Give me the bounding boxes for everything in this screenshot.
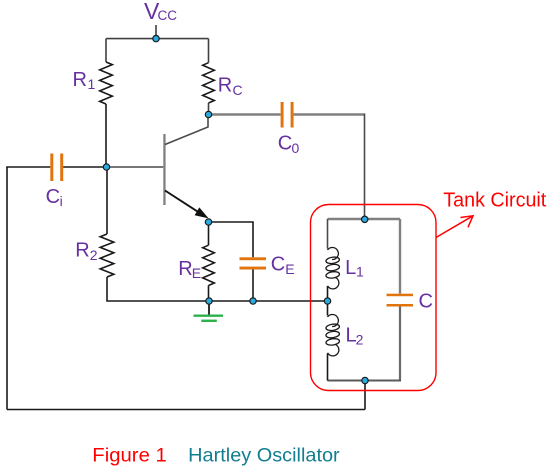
wire RC branch upper — [208, 39, 210, 63]
label L2 — [346, 325, 364, 348]
tank pointer arrow — [436, 216, 473, 238]
svg-text:C: C — [46, 186, 60, 208]
svg-text:E: E — [285, 261, 294, 277]
label L1 — [345, 257, 364, 280]
label R1 — [73, 69, 96, 92]
node tank bottom — [362, 377, 368, 383]
svg-text:R: R — [75, 240, 89, 262]
svg-text:2: 2 — [356, 332, 364, 348]
wire RE bottom — [208, 286, 210, 302]
wire CE bottom — [252, 270, 254, 302]
svg-text:E: E — [192, 265, 201, 281]
svg-text:R: R — [178, 258, 192, 280]
tank rectangle right wire upper — [399, 219, 401, 294]
wire base to transistor — [107, 166, 164, 168]
wire feedback left vertical — [6, 167, 8, 410]
wire emitter node to CE — [209, 222, 254, 257]
resistor RC — [203, 63, 215, 103]
capacitor C0 — [281, 102, 294, 128]
transistor Q1 emitter line with arrow — [165, 191, 209, 219]
label CE — [271, 254, 295, 278]
svg-text:Figure 1: Figure 1 — [92, 446, 167, 467]
wire C0 to corner — [294, 113, 365, 115]
node tank left — [324, 298, 330, 304]
label C0 — [278, 133, 300, 156]
ground — [194, 316, 224, 321]
transistor Q1 base bar — [163, 134, 165, 205]
capacitor C (tank) — [387, 294, 414, 307]
wire feedback bottom — [7, 409, 365, 411]
label R2 — [75, 240, 98, 263]
wire Ci to base node — [63, 166, 106, 168]
label Ci — [46, 186, 63, 209]
wire tank bottom stub — [364, 381, 366, 410]
capacitor Ci — [50, 154, 63, 182]
svg-text:1: 1 — [88, 76, 96, 92]
svg-text:R: R — [218, 75, 232, 97]
wire R2 bottom to emitter rail — [107, 277, 209, 301]
node collector — [205, 111, 211, 117]
tank left wire bottom — [327, 354, 329, 381]
wire R1 branch upper — [105, 39, 107, 62]
svg-text:Tank Circuit: Tank Circuit — [443, 190, 546, 212]
wire emitter rail to tank — [209, 300, 328, 302]
node emitter — [205, 219, 211, 225]
svg-text:C: C — [278, 133, 292, 155]
tank circuit red outline — [311, 205, 437, 391]
wire RC to collector node — [208, 103, 210, 115]
tank left wire top — [327, 219, 329, 249]
tank rectangle bottom wire — [328, 380, 402, 382]
node tank top — [362, 216, 368, 222]
svg-text:Hartley Oscillator: Hartley Oscillator — [188, 445, 340, 467]
inductor L2 — [326, 315, 340, 356]
node ground — [206, 298, 212, 304]
wire base node to R2 — [106, 167, 108, 234]
label RE — [178, 258, 201, 281]
wire collector node to C0 — [209, 113, 281, 115]
node base — [103, 164, 109, 170]
label RC — [218, 75, 243, 98]
label VCC — [144, 0, 177, 24]
svg-text:C: C — [271, 254, 285, 276]
ground stub — [208, 301, 210, 317]
node VCC — [153, 35, 159, 41]
capacitor CE — [240, 257, 267, 269]
svg-text:L: L — [345, 257, 356, 279]
inductor L1 — [326, 248, 340, 289]
tank rectangle right wire lower — [399, 307, 401, 381]
tank rectangle top wire — [328, 218, 401, 220]
svg-text:R: R — [73, 69, 87, 91]
wire R1 to base node — [105, 104, 107, 167]
svg-text:C: C — [419, 290, 433, 312]
resistor R1 — [100, 62, 113, 104]
transistor Q1 collector line — [165, 115, 208, 145]
svg-text:i: i — [60, 193, 63, 209]
svg-text:CC: CC — [158, 8, 178, 23]
wire emitter node to RE — [208, 222, 210, 245]
wire corner down to tank top node — [364, 114, 366, 220]
wire input left to Ci — [6, 166, 50, 168]
node CE bottom — [250, 298, 256, 304]
svg-text:1: 1 — [356, 264, 364, 280]
svg-text:2: 2 — [90, 247, 98, 263]
svg-text:0: 0 — [292, 140, 300, 156]
svg-text:C: C — [233, 82, 243, 98]
wire Vcc stub — [155, 25, 157, 39]
resistor RE — [203, 245, 215, 285]
tank left wire middle — [327, 286, 329, 316]
wire top rail — [106, 38, 209, 40]
resistor R2 — [100, 234, 114, 277]
